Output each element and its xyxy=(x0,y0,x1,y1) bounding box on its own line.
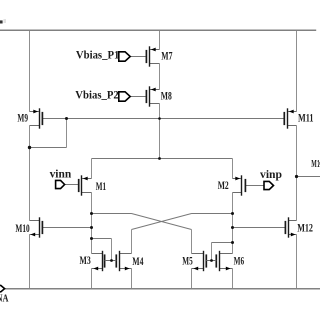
node junction M8 drain on gate bus xyxy=(158,117,161,120)
node junction M9 drain diode tie xyxy=(28,146,31,149)
svg-text:M4: M4 xyxy=(132,254,143,268)
svg-text:M2: M2 xyxy=(218,178,229,192)
svg-text:M9: M9 xyxy=(17,111,28,125)
wire VDD to M11 source xyxy=(296,30,298,111)
transistor M10 xyxy=(30,217,43,237)
wire M5 source to VSS xyxy=(191,269,193,289)
wire M9 diode tie vertical xyxy=(66,119,68,148)
node VDD net label clipped top-left xyxy=(0,19,6,24)
svg-text:Vbias_P2: Vbias_P2 xyxy=(75,88,119,102)
wire tail to M2 source xyxy=(232,159,234,179)
port vinp xyxy=(264,181,274,189)
wire M5 drain riser xyxy=(191,230,193,254)
wire VSS bottom rail xyxy=(5,288,320,290)
wire M3 M4 gate tap horizontal xyxy=(92,238,112,240)
transistor M1 xyxy=(79,175,92,195)
wire vinp port to M2 gate xyxy=(245,185,264,187)
wire VDD top rail xyxy=(0,29,316,31)
wire M4 source to VSS xyxy=(131,269,133,289)
wire M12 gate to M2 drain node xyxy=(233,227,286,229)
svg-text:vinn: vinn xyxy=(50,169,72,181)
wire vinn port to M1 gate xyxy=(65,184,79,186)
wire left column M10 source to VSS xyxy=(29,235,31,289)
wire Vbias_P1 port to M7 gate xyxy=(130,56,145,58)
node output net label clipped right edge xyxy=(311,159,320,170)
node junction M5 M6 gate tap xyxy=(231,241,234,244)
svg-text:vinp: vinp xyxy=(260,169,282,181)
wire left column M9 drain to M10 drain xyxy=(29,126,31,221)
wire M10 gate to M1 drain node xyxy=(42,227,92,229)
wire M9 diode tie horizontal xyxy=(30,147,67,149)
svg-text:M1: M1 xyxy=(96,179,106,193)
node junction M1 drain cross-couple xyxy=(90,212,93,215)
wire gate bus M9 gate to M11 gate xyxy=(43,118,285,120)
svg-text:M11: M11 xyxy=(298,111,314,125)
transistor M8 xyxy=(146,86,159,106)
wire M4 drain riser xyxy=(131,230,133,254)
wire M5 M6 gate tap horizontal xyxy=(212,242,233,244)
transistor M4 xyxy=(112,251,132,271)
svg-text:M3: M3 xyxy=(80,253,91,267)
wire M3 source to VSS xyxy=(91,269,93,289)
wire M5 M6 gate tap vertical xyxy=(211,243,213,261)
svg-text:M6: M6 xyxy=(234,253,245,267)
wire M3 M4 gate tap vertical xyxy=(111,239,113,261)
node junction tail T xyxy=(158,157,161,160)
transistor M7 xyxy=(146,46,159,66)
wire M2 drain column to M6 drain xyxy=(232,193,234,254)
transistor M2 xyxy=(233,175,246,195)
svg-text:M12: M12 xyxy=(297,221,313,235)
svg-text:NA: NA xyxy=(0,292,9,304)
transistor M3 xyxy=(92,251,112,271)
wire left column VDD to M9 source xyxy=(29,30,31,111)
svg-text:M7: M7 xyxy=(161,48,172,62)
svg-text:Vbias_P1: Vbias_P1 xyxy=(76,48,120,62)
wire output node to right edge xyxy=(297,176,320,178)
node junction M12 gate tap xyxy=(231,226,234,229)
node junction M3 M4 gates xyxy=(110,259,113,262)
svg-text:M8: M8 xyxy=(161,88,172,102)
wire M12 source to VSS xyxy=(296,235,298,289)
transistor M5 xyxy=(192,251,212,271)
wire tail node horizontal xyxy=(92,158,233,160)
port Vbias_P1 xyxy=(119,52,130,61)
transistor M9 xyxy=(30,108,43,128)
wire cross-couple top-left horizontal xyxy=(92,213,132,215)
node junction M10 gate tap xyxy=(90,226,93,229)
transistor M6 xyxy=(212,251,233,271)
svg-text:M10: M10 xyxy=(15,221,29,235)
wire cross-couple top-right horizontal xyxy=(192,213,233,215)
wire M11 drain to M12 drain output column xyxy=(296,126,298,221)
node junction M9 gate tie xyxy=(65,117,68,120)
transistor M11 xyxy=(284,108,296,128)
wire tail to M1 source xyxy=(91,159,93,179)
port vinn xyxy=(56,180,65,188)
wire cross-couple diagonal M4 to M2 drain xyxy=(132,214,192,230)
wire M1 drain column to M3 drain xyxy=(91,193,93,254)
wire cross-couple diagonal M1 to M5 drain xyxy=(132,214,192,230)
node junction M5 M6 gates xyxy=(210,259,213,262)
node junction output xyxy=(295,175,298,178)
port Vbias_P2 xyxy=(119,92,130,101)
port VSS clipped at left edge xyxy=(0,285,5,291)
svg-text:M5: M5 xyxy=(182,253,192,267)
node junction M2 drain cross-couple xyxy=(231,212,234,215)
wire VDD to M7 source xyxy=(159,30,161,49)
node junction M3 M4 gate tap xyxy=(90,237,93,240)
wire Vbias_P2 port to M8 gate xyxy=(130,96,145,98)
transistor M12 xyxy=(285,217,296,237)
wire M6 source to VSS xyxy=(232,269,234,289)
wire M7 drain to M8 source xyxy=(159,64,161,90)
wire M8 drain to tail node xyxy=(159,104,161,159)
